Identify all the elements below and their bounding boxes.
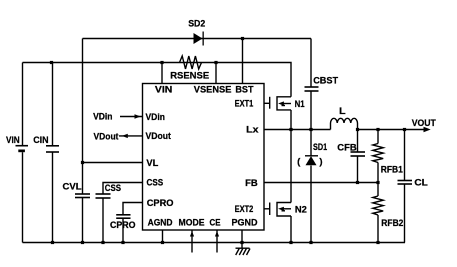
transistor N2 arrow dash bbox=[282, 210, 286, 212]
svg-text:(: ( bbox=[297, 156, 301, 167]
svg-text:RFB1: RFB1 bbox=[381, 164, 404, 175]
wire SD1 bottom lead bbox=[310, 166, 312, 243]
svg-text:CFB: CFB bbox=[337, 143, 357, 154]
inductor L bbox=[331, 118, 358, 129]
arrow N2 bbox=[278, 207, 284, 211]
svg-text:RFB2: RFB2 bbox=[381, 218, 403, 229]
svg-text:EXT1: EXT1 bbox=[235, 99, 254, 110]
node rail CVL bbox=[81, 241, 84, 244]
wire N2 source to ground bbox=[290, 216, 292, 243]
node rail SD1 bbox=[309, 241, 312, 244]
ground PGND hatch 2 bbox=[239, 249, 243, 256]
svg-text:EXT2: EXT2 bbox=[235, 204, 254, 215]
diode SD1 triangle bbox=[306, 156, 317, 165]
svg-text:CIN: CIN bbox=[33, 135, 49, 146]
transistor N2 source arrow line bbox=[284, 208, 292, 210]
node rail CSS bbox=[101, 241, 104, 244]
svg-text:BST: BST bbox=[235, 85, 253, 96]
svg-text:VIN: VIN bbox=[155, 85, 173, 96]
wire AGND pin drop bbox=[162, 230, 164, 243]
node FB CFB bbox=[356, 181, 359, 184]
transistor N2 body bbox=[277, 203, 291, 217]
ground PGND hatch 1 bbox=[236, 249, 240, 256]
node VOUT RFB1 bbox=[376, 128, 379, 131]
svg-text:Lx: Lx bbox=[246, 125, 259, 136]
capacitor CPRO plates bbox=[116, 214, 130, 216]
arrow VOUT bbox=[424, 127, 431, 133]
wire FB net bbox=[264, 182, 378, 184]
wire CPRO bottom lead bbox=[122, 218, 124, 242]
diode SD1 cathode bar bbox=[305, 155, 318, 157]
svg-text:CPRO: CPRO bbox=[147, 198, 174, 209]
svg-text:VIN: VIN bbox=[6, 135, 20, 146]
node VOUT CL bbox=[403, 128, 406, 131]
capacitor CSS plates bbox=[96, 193, 111, 195]
IC U1 box bbox=[143, 84, 265, 231]
wire CSS pin bbox=[103, 183, 143, 195]
node rail N2 bbox=[289, 241, 292, 244]
svg-text:RSENSE: RSENSE bbox=[170, 71, 209, 82]
svg-text:VSENSE: VSENSE bbox=[194, 85, 232, 96]
wire PGND pin drop bbox=[241, 230, 243, 248]
svg-text:CPRO: CPRO bbox=[110, 220, 136, 231]
wire VIN pin drop bbox=[161, 63, 163, 84]
wire VDout arrow line bbox=[119, 135, 143, 137]
wire CBST bottom lead bbox=[310, 91, 312, 130]
svg-text:VDout: VDout bbox=[146, 131, 172, 142]
diode SD2 cathode bar bbox=[203, 32, 204, 46]
capacitor CVL plates bbox=[75, 193, 90, 195]
capacitor CBST plates bbox=[305, 86, 319, 88]
transistor N2 gate bar bbox=[269, 203, 271, 216]
svg-text:L: L bbox=[339, 106, 346, 117]
wire Lx net bbox=[264, 129, 331, 131]
node rail PGND bbox=[240, 241, 243, 244]
node VL junction bbox=[81, 161, 84, 164]
svg-text:N1: N1 bbox=[295, 99, 306, 110]
wire CVL bottom lead bbox=[82, 198, 84, 243]
arrow N1 bbox=[278, 101, 284, 105]
diode SD2 triangle bbox=[194, 33, 203, 44]
arrow MODE up bbox=[190, 231, 194, 236]
resistor RFB1 top lead bbox=[377, 130, 379, 144]
wire CFB top lead bbox=[357, 130, 359, 153]
node BST top bbox=[241, 37, 244, 40]
wire N2 drain to Lx bbox=[290, 130, 292, 203]
svg-text:SD2: SD2 bbox=[188, 19, 205, 30]
svg-text:AGND: AGND bbox=[148, 218, 173, 229]
wire BST pin drop bbox=[242, 39, 244, 84]
arrow VDout bbox=[122, 134, 128, 138]
svg-text:VDin: VDin bbox=[146, 112, 166, 123]
node Lx N1 bbox=[289, 128, 292, 131]
battery VIN short thick plate bbox=[18, 150, 25, 153]
wire VL pin bbox=[83, 162, 143, 164]
resistor RFB2 bottom lead bbox=[377, 215, 379, 243]
svg-text:CE: CE bbox=[210, 218, 221, 229]
svg-text:VDin: VDin bbox=[93, 112, 113, 123]
wire top SD2-BST net bbox=[83, 38, 312, 40]
node FB RFB1 bbox=[376, 181, 379, 184]
node VIN pin top bbox=[160, 61, 163, 64]
wire CIN top lead bbox=[52, 63, 54, 146]
wire CSS bottom lead bbox=[102, 198, 104, 243]
svg-text:): ) bbox=[319, 156, 322, 167]
wire EXT2 pin bbox=[264, 208, 269, 210]
wire VSENSE pin drop bbox=[215, 63, 217, 84]
ground PGND bar bbox=[236, 247, 250, 249]
wire VIN source top lead bbox=[22, 63, 24, 146]
wire CL bottom lead bbox=[404, 184, 406, 243]
svg-text:FB: FB bbox=[245, 178, 258, 189]
svg-text:SD1: SD1 bbox=[313, 142, 328, 153]
svg-text:CL: CL bbox=[414, 177, 428, 188]
svg-text:PGND: PGND bbox=[232, 218, 258, 229]
wire CBST top lead bbox=[310, 39, 312, 88]
resistor RFB1 zigzag bbox=[373, 144, 383, 163]
wire VIN net bbox=[23, 63, 292, 97]
svg-text:CSS: CSS bbox=[105, 183, 121, 194]
node Lx CFB bbox=[356, 128, 359, 131]
node Lx SD1 bbox=[309, 128, 312, 131]
transistor N1 source arrow line bbox=[284, 103, 292, 105]
wire CFB bottom lead bbox=[357, 156, 359, 183]
svg-text:VDout: VDout bbox=[94, 132, 120, 143]
wire EXT1 pin bbox=[264, 102, 269, 104]
transistor N1 arrow dash bbox=[282, 105, 286, 107]
ground PGND hatch 3 bbox=[243, 249, 247, 256]
svg-text:N2: N2 bbox=[295, 205, 307, 216]
wire N1 source to Lx bbox=[290, 110, 292, 130]
arrow VDin bbox=[135, 114, 141, 119]
transistor N1 body bbox=[277, 97, 291, 110]
wire CPRO pin bbox=[123, 203, 143, 215]
wire CE pin line bbox=[216, 231, 218, 253]
ground PGND hatch 4 bbox=[247, 249, 251, 256]
capacitor CFB plates bbox=[351, 151, 366, 153]
arrow CE up bbox=[215, 231, 219, 236]
capacitor CIN plates bbox=[46, 145, 59, 147]
wire ground rail bbox=[23, 242, 406, 244]
svg-text:CBST: CBST bbox=[313, 76, 338, 87]
wire CIN bottom lead bbox=[52, 152, 54, 243]
wire CL top lead bbox=[404, 130, 406, 181]
wire MODE pin line bbox=[191, 231, 193, 253]
wire VDin arrow line bbox=[120, 116, 143, 118]
svg-text:CVL: CVL bbox=[63, 182, 82, 193]
wire VOUT net bbox=[358, 129, 425, 131]
resistor RSENSE zigzag bbox=[180, 56, 202, 69]
resistor RFB2 top lead bbox=[377, 183, 379, 197]
transistor N1 gate bar bbox=[269, 97, 271, 109]
wire VL vertical bbox=[82, 39, 84, 195]
battery VIN long plate bbox=[16, 145, 29, 147]
resistor RFB2 zigzag bbox=[373, 196, 383, 215]
svg-text:CSS: CSS bbox=[147, 178, 164, 189]
node rail AGND bbox=[161, 241, 164, 244]
node rail CPRO bbox=[121, 241, 124, 244]
wire VIN source bottom lead bbox=[22, 152, 24, 242]
svg-text:MODE: MODE bbox=[179, 218, 205, 229]
svg-text:VL: VL bbox=[146, 158, 158, 169]
svg-text:VOUT: VOUT bbox=[412, 118, 436, 129]
node CIN top bbox=[50, 61, 53, 64]
node VSENSE pin top bbox=[214, 61, 217, 64]
node rail CIN bbox=[51, 241, 54, 244]
node rail RFB2 bbox=[376, 241, 379, 244]
resistor RFB1 bottom lead bbox=[377, 163, 379, 183]
wire SD1 top lead bbox=[310, 130, 312, 156]
capacitor CL plates bbox=[398, 180, 413, 182]
